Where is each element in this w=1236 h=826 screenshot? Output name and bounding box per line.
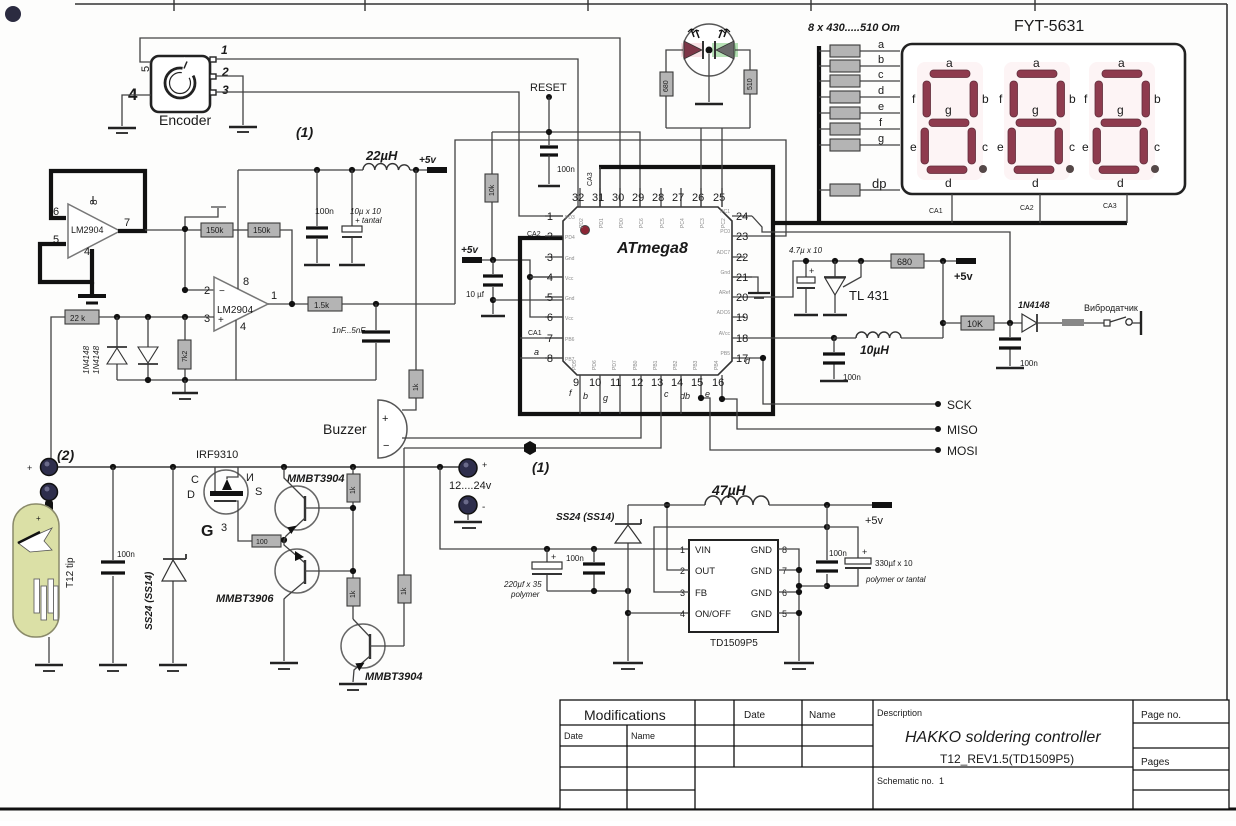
resistor array g <box>819 133 900 151</box>
op-amp U1A LM2904 <box>53 196 130 258</box>
svg-text:a: a <box>1118 56 1125 70</box>
wire pin 24 to vibration sensor <box>752 216 1010 323</box>
svg-text:100n: 100n <box>1020 359 1038 368</box>
resistor array c <box>819 69 900 87</box>
ground pin21 <box>748 293 770 298</box>
svg-text:e: e <box>878 101 884 113</box>
ATmega8 top pins 32-25 <box>572 188 727 228</box>
svg-text:5: 5 <box>547 292 553 304</box>
svg-text:1k: 1k <box>350 590 357 598</box>
svg-text:MMBT3904: MMBT3904 <box>287 473 344 485</box>
wire gnd pins internal <box>493 277 616 300</box>
svg-text:680: 680 <box>897 257 912 267</box>
encoder body <box>128 43 229 112</box>
connector 12..24v plus <box>449 459 492 492</box>
svg-text:g: g <box>1032 103 1039 117</box>
svg-text:150k: 150k <box>253 226 271 235</box>
svg-text:C: C <box>191 474 199 486</box>
thick bus to display <box>773 221 1127 225</box>
svg-text:Encoder: Encoder <box>159 112 211 128</box>
svg-text:7k2: 7k2 <box>182 351 189 362</box>
svg-text:1nF...5nF: 1nF...5nF <box>332 326 366 335</box>
svg-text:PC1: PC1 <box>720 209 730 215</box>
wire bottom clamp rail <box>117 379 376 381</box>
svg-text:GND: GND <box>751 588 772 599</box>
wire pin7 CA1 <box>520 337 563 339</box>
resistor array d <box>819 85 900 103</box>
svg-text:11: 11 <box>610 377 621 389</box>
svg-text:PC6: PC6 <box>639 218 645 228</box>
svg-text:26: 26 <box>692 192 704 204</box>
wire 150k to op-amp U1B output node <box>280 230 292 304</box>
svg-text:1: 1 <box>221 43 228 57</box>
svg-text:d: d <box>1117 176 1124 190</box>
svg-text:5: 5 <box>140 66 152 72</box>
svg-text:b: b <box>878 54 884 66</box>
svg-text:Gnd: Gnd <box>721 270 731 276</box>
wire pin31 to top bus <box>599 167 601 207</box>
resistor 1k (base pullup) <box>347 467 360 578</box>
power flag +5v (TL431) <box>954 258 976 283</box>
svg-text:GND: GND <box>751 545 772 556</box>
wire encoder pin5 to ATmega8 pin 30 <box>140 38 620 207</box>
svg-text:2: 2 <box>221 65 229 79</box>
svg-text:330µf x 10: 330µf x 10 <box>875 559 913 568</box>
diode 1N4148 (sensor) <box>1018 300 1062 332</box>
svg-text:a: a <box>1033 56 1040 70</box>
resistor 1k buzzer feed <box>402 170 423 410</box>
wire 150k chain joint <box>233 229 248 231</box>
svg-text:7: 7 <box>547 333 553 345</box>
svg-text:2: 2 <box>547 231 553 243</box>
svg-text:14: 14 <box>671 377 683 389</box>
ground 10uf <box>481 300 505 316</box>
svg-text:PD6: PD6 <box>592 360 598 370</box>
diode 1N4148 (left of clamp pair) <box>107 317 127 380</box>
svg-text:28: 28 <box>652 192 664 204</box>
wire pin 20 ARef to TL431 <box>752 261 806 297</box>
svg-text:6: 6 <box>547 312 553 324</box>
ground 100n rail <box>304 264 330 267</box>
wire pin 16 MISO <box>722 390 938 429</box>
svg-text:MISO: MISO <box>947 423 978 437</box>
svg-text:PD3: PD3 <box>565 215 575 221</box>
wire ON/OFF <box>628 612 689 614</box>
svg-text:PB3: PB3 <box>693 360 699 370</box>
ground sensor cap <box>996 367 1024 370</box>
svg-text:47µH: 47µH <box>711 482 747 498</box>
svg-text:23: 23 <box>736 231 748 243</box>
svg-text:PB6: PB6 <box>565 337 575 343</box>
svg-text:TD1509P5: TD1509P5 <box>710 638 758 649</box>
svg-text:ADC6: ADC6 <box>717 310 731 316</box>
svg-text:100: 100 <box>256 539 268 546</box>
svg-text:PB2: PB2 <box>673 360 679 370</box>
svg-text:4.7µ x 10: 4.7µ x 10 <box>789 246 823 255</box>
svg-text:e: e <box>997 140 1004 154</box>
IC U3 TD1509P5 <box>680 540 787 649</box>
svg-text:PC0: PC0 <box>720 229 730 235</box>
svg-text:PC2: PC2 <box>721 218 727 228</box>
svg-text:PB4: PB4 <box>714 360 720 370</box>
wire LED common to ground <box>708 54 710 102</box>
svg-text:ARef: ARef <box>719 290 731 296</box>
wire pin 13 to connector (1) net <box>404 390 661 448</box>
svg-text:a: a <box>534 347 539 357</box>
svg-text:FYT-5631: FYT-5631 <box>1014 18 1084 35</box>
svg-text:polymer or tantal: polymer or tantal <box>865 575 926 584</box>
svg-text:31: 31 <box>592 192 604 204</box>
svg-text:polymer: polymer <box>510 590 540 599</box>
wire pin 15 MOSI <box>701 390 938 450</box>
svg-text:7: 7 <box>124 217 130 229</box>
capacitor 330uf x 10 polymer or tantal <box>827 527 926 586</box>
svg-text:22µH: 22µH <box>365 148 398 163</box>
svg-text:100n: 100n <box>566 554 584 563</box>
svg-text:Buzzer: Buzzer <box>323 421 367 437</box>
ground encoder pin4 <box>108 128 136 133</box>
svg-text:SCK: SCK <box>947 398 972 412</box>
svg-text:GND: GND <box>751 566 772 577</box>
main heater rail <box>49 466 459 468</box>
svg-text:D: D <box>187 489 195 501</box>
resistor array a <box>819 39 900 57</box>
svg-text:1k: 1k <box>401 587 408 595</box>
svg-text:680: 680 <box>663 80 670 92</box>
svg-text:Вибродатчик: Вибродатчик <box>1084 303 1138 313</box>
svg-text:Pages: Pages <box>1141 757 1169 768</box>
svg-text:+: + <box>36 514 41 523</box>
svg-text:S: S <box>255 486 262 498</box>
svg-text:1N4148: 1N4148 <box>92 345 101 374</box>
resistor 1k (level shift) <box>347 578 360 619</box>
svg-text:g: g <box>945 103 952 117</box>
svg-text:29: 29 <box>632 192 644 204</box>
page top border <box>75 0 1227 11</box>
svg-text:10µH: 10µH <box>860 343 889 357</box>
svg-text:PD1: PD1 <box>599 218 605 228</box>
svg-text:PC5: PC5 <box>660 218 666 228</box>
trimmer mark on 150k <box>185 207 226 229</box>
wire encoder pin3 to ATmega8 pin 1 <box>216 92 563 216</box>
ground U1A <box>78 282 106 303</box>
svg-text:Name: Name <box>809 710 836 721</box>
resistor 1.5k <box>308 297 342 311</box>
svg-text:Gnd: Gnd <box>565 296 575 302</box>
svg-text:PB0: PB0 <box>633 360 639 370</box>
ground minus plug <box>454 522 482 528</box>
wire caps return to gnd rail <box>799 585 827 587</box>
ground clamp rail <box>172 380 198 399</box>
svg-text:c: c <box>982 140 988 154</box>
wire switch node <box>628 504 705 506</box>
svg-text:(2): (2) <box>57 447 74 463</box>
wire U1B output <box>268 303 308 305</box>
svg-text:100n: 100n <box>315 206 334 216</box>
svg-text:2: 2 <box>680 566 685 576</box>
svg-text:1k: 1k <box>350 486 357 494</box>
shunt reference TL431 <box>824 261 889 313</box>
transistor Q2 MMBT3904 <box>275 467 353 540</box>
svg-text:CA2: CA2 <box>527 231 541 238</box>
resistor 10K <box>943 316 1022 330</box>
svg-text:100n: 100n <box>829 549 847 558</box>
wire GND pins <box>778 549 799 661</box>
ATmega8 bottom pins 9-16 <box>572 360 724 390</box>
display digit 3 <box>1082 56 1161 190</box>
svg-text:AVcc: AVcc <box>719 331 731 337</box>
svg-text:PD2: PD2 <box>579 218 585 228</box>
transistor Q4 MMBT3904 <box>341 619 422 683</box>
wire pin 14 db to bottom bus <box>680 390 682 414</box>
svg-text:c: c <box>1069 140 1075 154</box>
wire 1.5k to ADC node <box>342 303 455 305</box>
wire input caps return <box>547 590 628 592</box>
svg-text:g: g <box>603 393 608 403</box>
resistor 22k <box>65 310 99 324</box>
resistor 680 <box>891 254 924 268</box>
resistor array b <box>819 54 900 72</box>
svg-text:3: 3 <box>222 83 229 97</box>
wire pin8 segment a <box>520 357 563 359</box>
resistor 150k (first) <box>201 223 233 237</box>
svg-text:4: 4 <box>547 272 553 284</box>
wire pin 17 SCK <box>752 358 938 404</box>
wire TL431 top rail <box>806 260 891 262</box>
svg-text:10: 10 <box>589 377 601 389</box>
wire 680 to +5v <box>924 260 956 262</box>
svg-text:4: 4 <box>680 609 685 619</box>
svg-text:g: g <box>878 133 884 145</box>
ground Q4 <box>339 684 367 690</box>
ground freewheel diode <box>613 663 643 669</box>
svg-text:220µf x 35: 220µf x 35 <box>503 580 542 589</box>
ground 4.7u <box>794 314 818 317</box>
svg-text:CA3: CA3 <box>1103 203 1117 210</box>
svg-text:T12_REV1.5(TD1509P5): T12_REV1.5(TD1509P5) <box>940 752 1074 766</box>
vibration sensor switch <box>1062 303 1141 335</box>
svg-text:CA3: CA3 <box>587 172 594 186</box>
svg-text:Date: Date <box>564 731 583 741</box>
svg-text:+: + <box>382 413 388 425</box>
svg-text:1: 1 <box>680 545 685 555</box>
svg-text:9: 9 <box>573 377 579 389</box>
transistor Q1 IRF9310 <box>187 449 262 541</box>
svg-text:3: 3 <box>204 313 210 325</box>
svg-text:c: c <box>664 389 669 399</box>
svg-text:10K: 10K <box>967 319 983 329</box>
svg-text:PD0: PD0 <box>619 218 625 228</box>
svg-text:+5v: +5v <box>865 515 884 527</box>
svg-text:6: 6 <box>782 588 787 598</box>
svg-text:3: 3 <box>547 252 553 264</box>
svg-text:12: 12 <box>631 377 643 389</box>
IC U2 ATmega8 body <box>563 207 732 375</box>
svg-text:PB5: PB5 <box>721 351 731 357</box>
resistor array f <box>819 117 900 135</box>
wire 22k left to connector (2) <box>51 317 65 466</box>
svg-text:ON/OFF: ON/OFF <box>695 609 731 620</box>
diode 1N4148 (right of clamp pair) <box>138 317 158 380</box>
svg-text:IRF9310: IRF9310 <box>196 449 238 461</box>
svg-text:+ tantal: + tantal <box>355 216 382 225</box>
svg-text:4: 4 <box>84 246 90 258</box>
wire OUT to switch node <box>667 505 689 570</box>
svg-text:24: 24 <box>736 211 748 223</box>
svg-text:(1): (1) <box>532 459 549 475</box>
wire 680 node down to 10K <box>942 261 944 338</box>
svg-text:e: e <box>1082 140 1089 154</box>
svg-text:d: d <box>1032 176 1039 190</box>
svg-text:Vcc: Vcc <box>565 316 574 322</box>
svg-text:30: 30 <box>612 192 624 204</box>
thick bus resistor array <box>817 46 821 223</box>
svg-text:7: 7 <box>782 566 787 576</box>
+5v rail with 22uH <box>238 148 428 170</box>
wire U1A plus input to ground (thick) <box>40 244 92 282</box>
svg-text:22 k: 22 k <box>70 314 86 323</box>
wire feedback to U1B pin2 <box>185 229 214 290</box>
ground LED <box>695 103 723 106</box>
RESET net <box>492 82 640 207</box>
svg-text:a: a <box>878 39 885 51</box>
inductor 47uH <box>705 482 769 505</box>
svg-text:ATmega8: ATmega8 <box>616 240 688 257</box>
svg-text:b: b <box>1154 92 1161 106</box>
svg-text:b: b <box>982 92 989 106</box>
wire pin 21 to ground <box>752 277 758 292</box>
wire encoder pin2 to ground <box>216 76 243 125</box>
display common stubs CA1 CA2 CA3 <box>929 194 1127 223</box>
svg-text:21: 21 <box>736 272 748 284</box>
svg-text:VIN: VIN <box>695 545 711 556</box>
svg-text:3: 3 <box>221 522 227 534</box>
svg-text:1k: 1k <box>413 383 420 391</box>
buzzer BZ1 <box>323 400 407 458</box>
wire inductor to +5v <box>769 504 872 506</box>
op-amp U1B LM2904 <box>204 276 277 333</box>
svg-text:20: 20 <box>736 292 748 304</box>
svg-text:3: 3 <box>680 588 685 598</box>
svg-text:(1): (1) <box>296 124 313 140</box>
wire LED bottom loop to pins 26,25 <box>666 127 750 129</box>
svg-text:8: 8 <box>243 276 249 288</box>
resistor 1k (Q4 base) <box>398 448 411 646</box>
svg-text:b: b <box>583 391 588 401</box>
resistor 680 (LED left) <box>660 50 683 128</box>
wire encoder pin1 to ATmega8 pin 32 <box>216 59 578 207</box>
title block outline <box>560 700 1229 809</box>
connector (2) plug <box>27 447 74 476</box>
svg-text:d: d <box>945 176 952 190</box>
svg-text:TL 431: TL 431 <box>849 288 889 303</box>
node feedback dots <box>182 226 188 232</box>
svg-text:12....24v: 12....24v <box>449 480 492 492</box>
svg-text:MMBT3906: MMBT3906 <box>216 593 274 605</box>
svg-text:+5v: +5v <box>419 155 437 166</box>
svg-text:PD5: PD5 <box>572 360 578 370</box>
svg-text:+: + <box>27 463 32 473</box>
svg-text:SS24 (SS14): SS24 (SS14) <box>144 571 155 630</box>
svg-text:8: 8 <box>782 545 787 555</box>
svg-text:8 x 430.....510 Om: 8 x 430.....510 Om <box>808 22 900 34</box>
svg-text:150k: 150k <box>206 226 224 235</box>
ground tip cap <box>99 665 127 671</box>
capacitor 10uf <box>466 260 503 300</box>
svg-text:Schematic no. 1: Schematic no. 1 <box>877 776 944 786</box>
svg-text:c: c <box>878 69 884 81</box>
wire 22k to plus input <box>99 316 214 318</box>
svg-text:MOSI: MOSI <box>947 444 978 458</box>
svg-text:8: 8 <box>89 199 100 205</box>
page corner hole mark <box>5 6 21 22</box>
svg-text:MMBT3904: MMBT3904 <box>365 671 422 683</box>
svg-text:10 µf: 10 µf <box>466 290 485 299</box>
svg-text:PC3: PC3 <box>700 218 706 228</box>
svg-text:FB: FB <box>695 588 707 599</box>
LED bicolor D3 <box>681 24 738 76</box>
diode SS24 (SS14) tip clamp <box>144 467 186 663</box>
svg-text:22: 22 <box>736 252 748 264</box>
svg-text:4: 4 <box>240 321 246 333</box>
svg-text:CA1: CA1 <box>929 208 943 215</box>
capacitor 100n (sensor) <box>999 323 1038 368</box>
wire U1B pin8 to +5v rail <box>237 170 239 289</box>
display digit 2 <box>997 56 1076 190</box>
capacitor 10u x 10 tantal <box>342 170 382 263</box>
svg-text:RESET: RESET <box>530 82 567 94</box>
svg-text:Date: Date <box>744 710 766 721</box>
svg-text:+5v: +5v <box>461 245 479 256</box>
ground T12 tip <box>35 665 63 671</box>
page right border <box>1226 4 1228 701</box>
capacitor 1nF...5nF <box>332 304 390 380</box>
svg-text:Description: Description <box>877 708 922 718</box>
svg-text:c: c <box>1154 140 1160 154</box>
resistor 10k RESET pullup <box>485 132 498 260</box>
ground Q3 <box>270 663 298 669</box>
svg-text:27: 27 <box>672 192 684 204</box>
ATmega8 right pins 24-17 <box>717 209 752 365</box>
svg-text:SS24 (SS14): SS24 (SS14) <box>556 512 615 523</box>
svg-text:510: 510 <box>747 78 754 90</box>
wire U1B pin4 down <box>235 320 237 380</box>
wire pins 9,10,11 to bottom bus <box>580 390 620 414</box>
capacitor 100n (tip) <box>101 467 135 663</box>
wire U1A feedback loop (thick) <box>51 171 145 231</box>
resistor array dp <box>819 176 900 196</box>
capacitor 100n (rail) <box>306 170 334 263</box>
ground TL431 <box>823 314 847 317</box>
wire encoder pin4 to ground <box>122 95 151 126</box>
resistor 7k2 <box>178 317 191 380</box>
wire pin 18 AVcc <box>752 337 834 339</box>
inductor 10uH <box>831 332 943 357</box>
diode SS24 (SS14) freewheel <box>556 505 641 661</box>
svg-text:T12 tip: T12 tip <box>65 557 76 588</box>
wire FB sense <box>654 527 827 592</box>
svg-text:10k: 10k <box>489 184 496 196</box>
svg-text:1N4148: 1N4148 <box>1018 300 1050 310</box>
svg-text:LM2904: LM2904 <box>71 225 104 235</box>
ground AVcc cap <box>820 380 848 383</box>
svg-text:1: 1 <box>271 290 277 302</box>
svg-text:+: + <box>551 552 556 562</box>
svg-text:-: - <box>482 502 485 513</box>
capacitor 4.7u x 10 <box>789 246 823 313</box>
ground TD1509 <box>784 663 814 669</box>
svg-text:19: 19 <box>736 312 748 324</box>
